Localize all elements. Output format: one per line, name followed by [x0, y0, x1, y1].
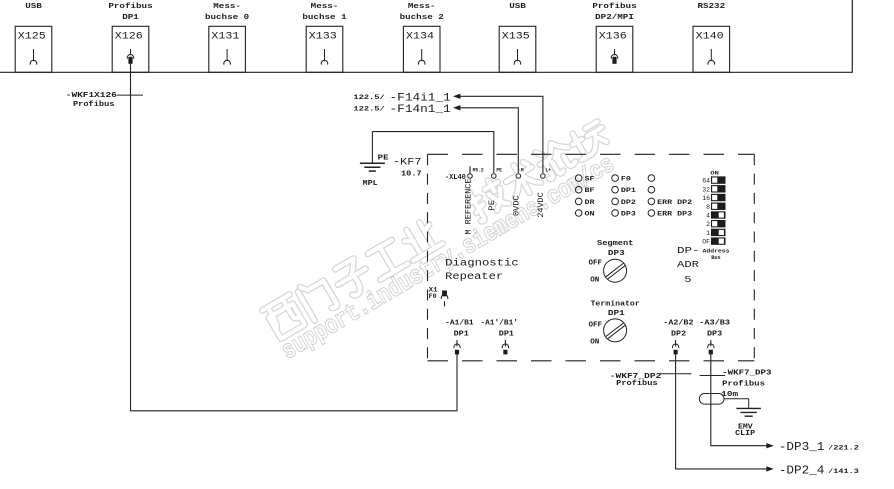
cable -WKF7_DP3 Profibus 10m marker — [700, 370, 772, 399]
svg-text:DR: DR — [585, 199, 595, 206]
svg-text:USB: USB — [25, 3, 43, 11]
label DP-ADR 5 — [677, 245, 700, 285]
svg-text:ON: ON — [710, 171, 718, 177]
terminal -A3/B3 DP3 — [699, 320, 730, 355]
svg-text:Profibus: Profibus — [73, 101, 115, 109]
svg-text:Terminator: Terminator — [591, 300, 640, 308]
svg-text:Mess-: Mess- — [408, 3, 436, 11]
svg-text:0VDC: 0VDC — [513, 195, 522, 216]
svg-text:X134: X134 — [406, 32, 434, 43]
connector X126 (Profibus DP1) — [108, 3, 152, 72]
svg-text:ON: ON — [585, 210, 595, 217]
svg-text:5: 5 — [684, 274, 692, 285]
LED ON — [575, 210, 594, 218]
wire from X126 plug down-right-up to DP1 terminal — [131, 64, 458, 411]
svg-text:X133: X133 — [309, 32, 337, 43]
svg-text:OF: OF — [702, 239, 710, 246]
svg-text:-DP2_4: -DP2_4 — [779, 464, 825, 477]
LED BF — [575, 186, 594, 194]
device outline (dashed) Diagnostic Repeater -KF7 — [428, 154, 755, 360]
net label -DP3_1 /221.2 — [779, 441, 859, 454]
top connector bus wire — [0, 0, 852, 72]
svg-text:/221.2: /221.2 — [828, 444, 859, 451]
connector X1 F0 (on device edge) — [429, 287, 448, 307]
svg-text:10.7: 10.7 — [401, 170, 422, 178]
svg-text:Profibus: Profibus — [592, 3, 636, 11]
svg-text:Mess-: Mess- — [311, 3, 339, 11]
terminal pin M (0VDC) — [513, 167, 524, 216]
svg-text:4: 4 — [706, 212, 710, 219]
svg-text:Diagnostic: Diagnostic — [445, 257, 519, 269]
svg-text:X131: X131 — [211, 32, 239, 43]
svg-text:-DP3_1: -DP3_1 — [779, 441, 825, 454]
svg-text:F0: F0 — [621, 176, 631, 183]
svg-text:DP2: DP2 — [621, 199, 636, 206]
wire DP3 to -DP3_1 — [711, 354, 774, 448]
LED ERR DP3 — [648, 210, 692, 218]
svg-text:ON: ON — [590, 338, 599, 346]
LED row2 col3 — [648, 186, 655, 193]
svg-text:-XL40: -XL40 — [445, 174, 466, 182]
svg-text:ERR DP3: ERR DP3 — [657, 210, 692, 217]
svg-text:PE: PE — [496, 167, 502, 173]
EMV CLIP ground — [724, 399, 761, 438]
connector X133 (Mess- buchse 1) — [302, 3, 346, 72]
svg-text:Segment: Segment — [597, 240, 633, 248]
net -F14n1_1 arrow reference (122.5/) — [353, 104, 518, 173]
svg-text:Profibus: Profibus — [108, 3, 152, 11]
svg-text:-F14i1_1: -F14i1_1 — [390, 92, 452, 104]
svg-text:DP-: DP- — [677, 245, 700, 256]
terminal -A1/B1 DP1 — [445, 320, 474, 355]
svg-text:Profibus: Profibus — [616, 380, 657, 388]
cable -WKF7_DP2 Profibus marker — [610, 373, 692, 388]
svg-text:-A1'/B1': -A1'/B1' — [480, 320, 518, 328]
terminal pin PE (PE) — [488, 167, 502, 210]
svg-text:-WKF1X126: -WKF1X126 — [66, 92, 117, 100]
ground symbol PE / MPL — [360, 132, 389, 189]
net -F14i1_1 arrow reference (122.5/) — [353, 92, 543, 173]
svg-text:-A1/B1: -A1/B1 — [445, 320, 474, 328]
svg-text:DP3: DP3 — [608, 250, 625, 258]
svg-text:buchse 1: buchse 1 — [302, 14, 346, 22]
svg-text:PE: PE — [378, 154, 389, 162]
connector X131 (Mess- buchse 0) — [205, 3, 249, 72]
LED row1 col3 — [648, 175, 655, 182]
cable loop symbol around DP3 wire — [699, 394, 724, 405]
terminal pin M5.2 (M REFERENCE) — [464, 166, 483, 234]
svg-text:DP1: DP1 — [122, 14, 139, 22]
svg-text:F0: F0 — [429, 293, 437, 300]
connector X140 (RS232) — [693, 3, 730, 72]
svg-text:Repeater: Repeater — [445, 272, 503, 283]
svg-text:122.5/: 122.5/ — [353, 106, 384, 113]
wire PE ground to terminal PE — [372, 132, 493, 173]
svg-text:X136: X136 — [599, 32, 627, 43]
svg-text:OFF: OFF — [589, 322, 603, 330]
svg-text:CLIP: CLIP — [735, 430, 755, 438]
svg-text:buchse 2: buchse 2 — [400, 14, 444, 22]
svg-text:2: 2 — [706, 221, 710, 228]
svg-text:ADR: ADR — [677, 259, 699, 270]
svg-text:M5.2: M5.2 — [473, 167, 484, 173]
svg-text:X126: X126 — [115, 32, 143, 43]
connector X134 (Mess- buchse 2) — [400, 3, 444, 72]
terminal pin L+ (24VDC) — [537, 167, 551, 217]
svg-text:122.5/: 122.5/ — [353, 94, 384, 101]
LED SF — [575, 175, 594, 183]
svg-text:DP1: DP1 — [608, 310, 625, 318]
svg-text:X135: X135 — [502, 32, 530, 43]
svg-text:L+: L+ — [546, 167, 552, 173]
svg-text:RS232: RS232 — [697, 3, 725, 11]
device designator -KF7 10.7 — [393, 157, 422, 179]
svg-text:X125: X125 — [18, 32, 46, 43]
LED ERR DP2 — [648, 198, 692, 206]
svg-text:8: 8 — [706, 204, 710, 211]
svg-text:ERR DP2: ERR DP2 — [657, 199, 692, 206]
svg-text:/141.3: /141.3 — [828, 468, 859, 475]
DIP switch block DP address — [702, 171, 729, 261]
rotary switch Terminator DP1 — [589, 300, 640, 346]
svg-text:SF: SF — [585, 176, 595, 183]
svg-text:ON: ON — [590, 276, 599, 284]
label Diagnostic Repeater — [445, 257, 519, 283]
svg-text:USB: USB — [509, 3, 527, 11]
svg-text:DP2/MPI: DP2/MPI — [595, 14, 634, 22]
svg-text:Profibus: Profibus — [722, 380, 765, 388]
svg-text:Bus: Bus — [711, 254, 721, 261]
svg-text:DP2: DP2 — [671, 331, 687, 339]
svg-text:BF: BF — [585, 187, 595, 194]
svg-text:-F14n1_1: -F14n1_1 — [390, 104, 452, 116]
LED DP1 — [612, 186, 636, 194]
connector X136 (Profibus DP2/MPI) — [592, 3, 636, 72]
watermark siemens forum — [262, 116, 620, 366]
svg-text:1: 1 — [706, 230, 710, 237]
svg-text:Mess-: Mess- — [213, 3, 241, 11]
LED DR — [575, 198, 594, 206]
svg-text:16: 16 — [702, 195, 710, 202]
svg-text:32: 32 — [702, 186, 710, 193]
wire DP2 to -DP2_4 — [676, 354, 774, 471]
connector X135 (USB) — [499, 3, 536, 72]
svg-text:-A2/B2: -A2/B2 — [663, 320, 694, 328]
LED DP2 — [612, 198, 636, 206]
svg-text:24VDC: 24VDC — [537, 192, 546, 217]
terminal -A1'/B1' DP1 — [480, 320, 518, 355]
rotary switch Segment DP3 — [589, 240, 634, 284]
connector X125 (USB) — [15, 3, 52, 72]
svg-text:buchse 0: buchse 0 — [205, 14, 249, 22]
svg-text:DP1: DP1 — [499, 331, 515, 339]
svg-text:DP1: DP1 — [621, 187, 636, 194]
terminal -A2/B2 DP2 — [663, 320, 694, 355]
cable -WKF1X126 Profibus marker and label — [66, 92, 143, 109]
svg-text:M REFERENCE: M REFERENCE — [464, 178, 473, 234]
svg-text:PE: PE — [488, 200, 497, 211]
svg-text:DP3: DP3 — [621, 210, 636, 217]
svg-text:-A3/B3: -A3/B3 — [699, 320, 730, 328]
svg-text:MPL: MPL — [363, 180, 378, 188]
LED F0 — [612, 175, 631, 183]
svg-text:X140: X140 — [696, 32, 724, 43]
svg-text:DP3: DP3 — [707, 331, 723, 339]
svg-text:M: M — [521, 167, 524, 173]
svg-text:OFF: OFF — [589, 259, 603, 267]
svg-text:-KF7: -KF7 — [393, 157, 422, 169]
LED DP3 — [612, 210, 636, 218]
svg-text:DP1: DP1 — [454, 331, 470, 339]
svg-text:-WKF7_DP3: -WKF7_DP3 — [722, 370, 771, 378]
terminal strip -XL40 — [445, 174, 466, 182]
svg-text:64: 64 — [702, 178, 710, 185]
net label -DP2_4 /141.3 — [779, 464, 859, 477]
